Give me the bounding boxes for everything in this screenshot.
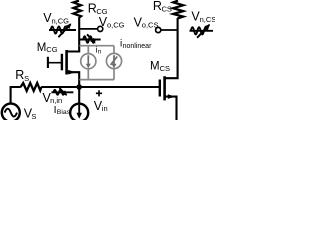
transistor M_CG gate T-bar xyxy=(47,57,49,68)
svg-text:S: S xyxy=(24,74,29,83)
svg-text:n,CG: n,CG xyxy=(52,17,70,26)
transistor M_CG gate bar xyxy=(61,54,63,71)
noise source output baseline xyxy=(80,39,101,41)
svg-text:nonlinear: nonlinear xyxy=(123,43,152,50)
wire R_CG bottom to M_CG drain xyxy=(67,17,80,52)
wire node V_o,CS stub xyxy=(161,29,178,31)
i_nonlinear arrow shaft xyxy=(113,55,115,65)
transistor M_CS source lead wire xyxy=(165,97,177,120)
noise source V_n,CS baseline xyxy=(190,30,214,32)
noise source V_n,CS sine xyxy=(191,27,208,34)
current source i_nonlinear circle xyxy=(106,53,121,68)
noise source V_n,in baseline xyxy=(51,91,73,93)
wire R_CS bottom to M_CS drain xyxy=(165,18,178,78)
transistor M_CG channel bar xyxy=(65,50,68,75)
junction dot input node xyxy=(76,84,82,90)
gray rail top (noise sources to drain node) xyxy=(79,45,114,47)
i_nonlinear arrowhead xyxy=(112,64,117,69)
transistor M_CS source arrow xyxy=(168,94,175,99)
i_n arrow shaft xyxy=(87,55,89,65)
svg-text:M: M xyxy=(37,42,47,54)
i_n arrowhead xyxy=(86,64,91,69)
transistor M_CG source arrow xyxy=(68,70,75,75)
noise source V_n,CS arrow xyxy=(197,25,209,38)
transistor M_CS gate bar xyxy=(159,80,161,97)
noise source output arrow xyxy=(87,34,95,42)
svg-text:M: M xyxy=(150,61,160,73)
source V_S circle xyxy=(2,104,20,122)
noise source V_n,CG arrow xyxy=(58,24,70,37)
gray stub to i_n top xyxy=(87,46,89,54)
current source I_Bias arrow xyxy=(78,105,80,114)
current source I_Bias arrowhead xyxy=(76,113,82,119)
svg-text:Bias: Bias xyxy=(57,109,71,116)
gray stub i_n bottom xyxy=(87,69,89,80)
svg-text:in: in xyxy=(102,104,108,113)
i_nonlinear slash xyxy=(111,57,118,65)
svg-text:n,CS: n,CS xyxy=(200,15,215,24)
noise source V_n,in arrow xyxy=(59,88,66,95)
current source i_n circle xyxy=(81,54,96,69)
svg-text:n: n xyxy=(98,48,102,55)
wire input line R_S to M_CS gate xyxy=(41,86,159,88)
svg-text:S: S xyxy=(31,112,36,120)
resistor R_CS xyxy=(173,1,183,19)
gray stub i_nonlinear bottom xyxy=(113,69,115,80)
svg-text:CG: CG xyxy=(46,45,57,54)
transistor M_CG source lead wire xyxy=(67,72,80,87)
noise source V_n,in sine xyxy=(53,90,64,95)
transistor M_CG gate connector wire xyxy=(48,62,61,64)
noise source output sine xyxy=(83,36,95,43)
svg-text:R: R xyxy=(15,68,24,82)
svg-text:o,CS: o,CS xyxy=(142,21,159,30)
wire input node to I_Bias xyxy=(78,87,80,104)
terminal circle V_o,CS xyxy=(156,27,161,32)
current source I_Bias circle xyxy=(70,104,88,122)
svg-text:CS: CS xyxy=(162,5,172,14)
resistor R_CG xyxy=(73,1,81,18)
noise source V_n,CG baseline xyxy=(49,29,76,31)
transistor M_CS channel bar xyxy=(163,76,166,100)
plus sign V_in xyxy=(96,90,102,96)
noise source V_n,CG sine xyxy=(51,26,68,33)
svg-text:CS: CS xyxy=(160,64,170,73)
gray stub to i_nonlinear top xyxy=(113,46,115,54)
wire V_S to R_S xyxy=(11,87,21,104)
resistor R_S xyxy=(21,83,42,91)
wire node V_o,CG stub xyxy=(79,28,97,30)
svg-text:o,CG: o,CG xyxy=(107,20,125,29)
gray rail bottom (to source node) xyxy=(79,79,114,81)
terminal circle V_o,CG xyxy=(98,26,103,31)
source V_S sine xyxy=(5,109,17,117)
